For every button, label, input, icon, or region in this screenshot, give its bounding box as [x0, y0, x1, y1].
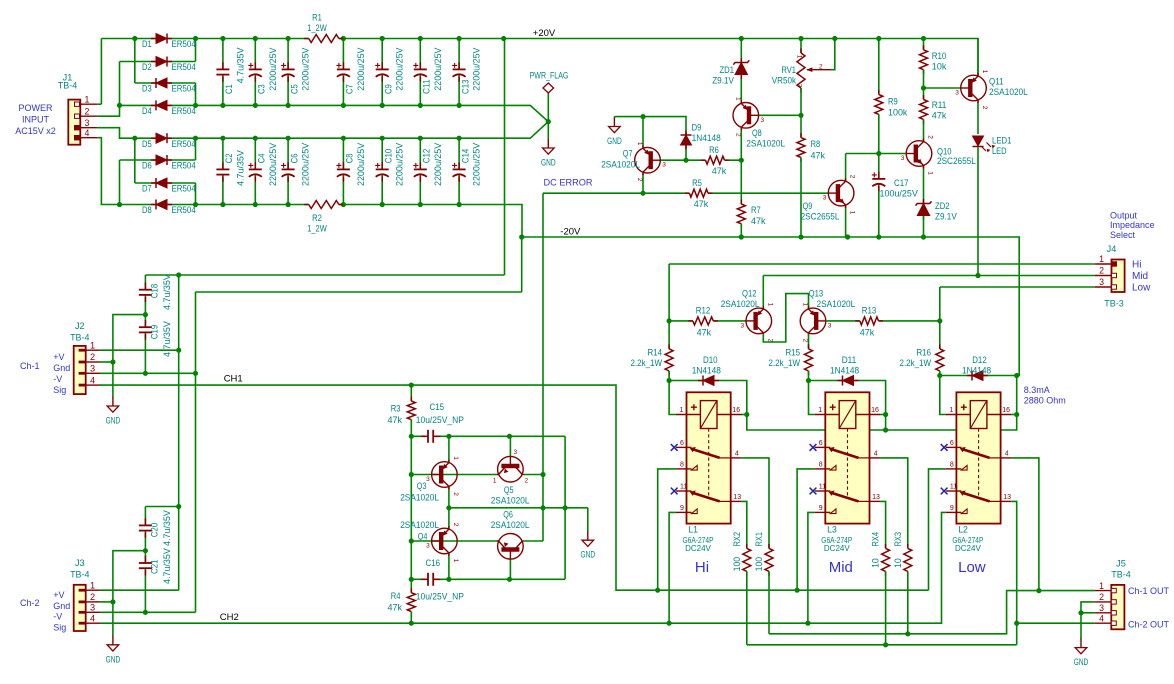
svg-text:L2: L2 [958, 525, 968, 535]
wire Q8 base [759, 114, 801, 116]
svg-text:2200u/25V: 2200u/25V [472, 47, 483, 91]
svg-text:Gnd: Gnd [53, 363, 70, 373]
diode D6 [151, 159, 156, 161]
svg-text:RX1: RX1 [754, 532, 765, 547]
capacitor C21 [144, 556, 146, 563]
zener ZD2 [923, 199, 925, 204]
svg-text:R14: R14 [647, 348, 662, 359]
wire gnd tap down [112, 362, 114, 398]
svg-text:1: 1 [981, 70, 988, 74]
resistor RX4 [885, 544, 887, 549]
wire [342, 175, 344, 205]
resistor RX3 [907, 544, 909, 549]
wire [287, 75, 289, 106]
svg-text:D2: D2 [142, 62, 152, 73]
capacitor C10 [381, 162, 383, 169]
svg-text:9: 9 [819, 505, 823, 512]
svg-text:DC24V: DC24V [685, 544, 711, 553]
svg-text:8.3mA: 8.3mA [1024, 385, 1050, 395]
svg-text:C11: C11 [422, 79, 433, 94]
junction [418, 202, 423, 207]
svg-text:1: 1 [493, 477, 497, 484]
wire J2 pin1 row [100, 349, 179, 351]
svg-text:2SA1020L: 2SA1020L [400, 520, 439, 531]
svg-text:R4: R4 [391, 591, 401, 602]
wire Q7 emitter [642, 173, 644, 193]
wire Q8 collector down [740, 128, 742, 160]
svg-text:1: 1 [802, 303, 809, 307]
resistor R5 [685, 192, 690, 194]
junction [341, 103, 346, 108]
svg-text:3: 3 [795, 84, 802, 88]
svg-text:3: 3 [823, 195, 827, 202]
junction [176, 348, 181, 353]
junction [744, 412, 749, 417]
wire +20V rail right [339, 39, 978, 76]
resistor R12 [688, 320, 693, 322]
svg-text:2SA1020L: 2SA1020L [989, 87, 1028, 98]
junction [921, 234, 926, 239]
resistor RX2 [746, 544, 748, 549]
capacitor C13 [458, 62, 460, 69]
junction [667, 621, 672, 626]
wire [254, 39, 256, 70]
wire [613, 117, 615, 118]
transistor Q10 [906, 139, 932, 169]
junction [655, 588, 660, 593]
svg-text:C4: C4 [257, 153, 268, 163]
svg-text:2SC2655L: 2SC2655L [937, 156, 976, 167]
svg-text:47k: 47k [697, 328, 712, 339]
diode D9 [685, 131, 687, 136]
capacitor C2 [222, 162, 224, 169]
junction [519, 234, 524, 239]
no-connect [671, 488, 678, 495]
wire [458, 39, 460, 70]
capacitor C11 [419, 62, 421, 69]
wire [686, 159, 706, 161]
svg-text:4.7u/35V: 4.7u/35V [162, 274, 173, 310]
wire +V drop [504, 39, 506, 276]
junction [132, 136, 137, 141]
junction [253, 202, 258, 207]
svg-text:Mid: Mid [1132, 271, 1148, 282]
wire D3 row [135, 82, 196, 84]
svg-text:Hi: Hi [695, 559, 709, 576]
wire [222, 175, 224, 205]
svg-text:D6: D6 [142, 161, 152, 172]
svg-text:2: 2 [85, 106, 90, 116]
junction [937, 318, 942, 323]
capacitor C17 [878, 172, 880, 179]
wire [923, 166, 925, 203]
svg-text:C3: C3 [257, 84, 268, 94]
junction [667, 318, 672, 323]
wire D2 cathode up [195, 39, 197, 62]
svg-text:Q11: Q11 [989, 77, 1004, 88]
connector J4 [1112, 260, 1125, 293]
svg-text:2200u/25V: 2200u/25V [395, 142, 406, 186]
junction [845, 234, 850, 239]
wire Q12-Q13 link [763, 294, 808, 342]
transistor Q7 [635, 145, 661, 175]
junction [1014, 373, 1019, 378]
capacitor C6 [287, 162, 289, 169]
wire J1 pin2 [98, 105, 120, 116]
svg-text:ER504: ER504 [172, 205, 197, 216]
wire [668, 321, 670, 349]
svg-text:1: 1 [1099, 581, 1104, 591]
wire L2 pin1 feed [940, 376, 946, 415]
wire Q5 top [509, 436, 511, 456]
junction [253, 136, 258, 141]
svg-text:Output: Output [1110, 211, 1138, 221]
wire Q4 emitter [448, 554, 450, 580]
junction [446, 505, 451, 510]
svg-text:2SA1020L: 2SA1020L [721, 299, 760, 310]
svg-text:CH1: CH1 [224, 374, 243, 385]
wire L2 pin13 down [1011, 501, 1017, 644]
svg-text:1: 1 [927, 171, 934, 175]
junction [1078, 610, 1083, 615]
junction [176, 504, 181, 509]
svg-text:4.7u/35V: 4.7u/35V [235, 47, 246, 83]
svg-text:RV1: RV1 [781, 65, 796, 76]
svg-text:1: 1 [766, 303, 773, 307]
svg-text:Ch-2 OUT: Ch-2 OUT [1128, 620, 1170, 630]
junction [409, 472, 414, 477]
wire [725, 159, 742, 161]
transistor Q12 [746, 306, 772, 336]
svg-text:3: 3 [955, 90, 959, 97]
junction [795, 588, 800, 593]
diode D2 [151, 61, 156, 63]
wire [411, 435, 426, 437]
junction [507, 577, 512, 582]
junction [975, 273, 980, 278]
wire gnd tap down [112, 602, 114, 636]
svg-text:C15: C15 [430, 402, 445, 413]
wire L2 pin16 [1011, 414, 1016, 416]
ground GND J3 [112, 636, 114, 645]
svg-text:2SA1020L: 2SA1020L [491, 495, 530, 506]
svg-text:2200u/25V: 2200u/25V [356, 47, 367, 91]
svg-text:4: 4 [85, 128, 90, 138]
wire Mid row [763, 275, 1094, 277]
svg-text:Ch-1: Ch-1 [20, 361, 40, 371]
svg-text:2: 2 [981, 106, 988, 110]
junction [739, 234, 744, 239]
wire [977, 101, 979, 134]
wire [145, 506, 178, 508]
wire coil rail [747, 415, 1017, 431]
transistor Q4 [432, 526, 458, 556]
wire D5-D7 branch [134, 138, 136, 183]
resistor R10 [923, 45, 925, 50]
wire Ch-1 OUT bus [769, 591, 1095, 634]
svg-text:47k: 47k [712, 166, 727, 177]
junction [683, 158, 688, 163]
svg-text:2SA1020L: 2SA1020L [817, 299, 856, 310]
junction [798, 36, 803, 41]
wire [800, 39, 802, 54]
junction [546, 119, 551, 124]
wire Hi row [669, 263, 1095, 265]
svg-text:Q3: Q3 [417, 481, 427, 492]
capacitor C5 [287, 62, 289, 69]
wire J1 pin1 up [100, 39, 102, 105]
svg-text:1: 1 [734, 97, 741, 101]
svg-text:D4: D4 [142, 106, 152, 117]
wire -V row right [339, 205, 522, 238]
svg-text:1_2W: 1_2W [307, 223, 327, 234]
svg-text:1N4148: 1N4148 [962, 365, 991, 376]
wire RX2 down [746, 571, 748, 644]
junction [457, 36, 462, 41]
svg-text:2SA1020L: 2SA1020L [400, 493, 439, 504]
svg-text:Sig: Sig [53, 623, 66, 633]
wire -V row left [120, 204, 309, 206]
junction [921, 85, 926, 90]
junction [193, 136, 198, 141]
wire [419, 138, 421, 169]
svg-text:R13: R13 [862, 305, 877, 316]
junction [143, 610, 148, 615]
svg-text:Q8: Q8 [752, 128, 762, 139]
svg-text:Select: Select [1110, 230, 1136, 240]
wire [381, 39, 383, 70]
wire L3 pin8 feed [797, 469, 815, 590]
wire [878, 114, 880, 153]
resistor R6 [701, 159, 706, 161]
junction [253, 103, 258, 108]
resistor R13 [855, 320, 860, 322]
svg-text:1_2W: 1_2W [307, 23, 327, 34]
diode D5 [151, 137, 156, 139]
svg-text:Ch-2: Ch-2 [20, 598, 40, 608]
diode D12 [967, 375, 972, 377]
svg-text:47k: 47k [387, 415, 402, 426]
svg-text:R6: R6 [709, 145, 719, 156]
wire Q5 right [524, 474, 543, 476]
junction [409, 538, 414, 543]
wire base row ch1 [411, 474, 497, 476]
junction [220, 202, 225, 207]
wire [800, 158, 802, 238]
junction [341, 202, 346, 207]
wire Q7 top row [614, 117, 686, 135]
wire J3 pin3 row [100, 611, 196, 613]
wire [144, 507, 146, 526]
potentiometer RV1 [800, 49, 802, 54]
capacitor C19 [144, 320, 146, 327]
svg-text:8: 8 [819, 461, 823, 468]
junction [341, 36, 346, 41]
svg-text:+20V: +20V [533, 28, 556, 39]
svg-text:4: 4 [90, 375, 95, 385]
svg-text:1N4148: 1N4148 [830, 365, 859, 376]
wire L1 pin13 to RX2 [741, 501, 747, 548]
wire CH2 net to L2 pin9 [100, 512, 946, 623]
wire D6 up [195, 138, 197, 160]
svg-text:2880 Ohm: 2880 Ohm [1024, 395, 1066, 405]
wire [419, 39, 421, 70]
svg-text:1: 1 [1099, 254, 1104, 264]
junction [176, 272, 181, 277]
junction [117, 202, 122, 207]
wire -20V rail [522, 237, 1019, 376]
wire D7 row [135, 182, 196, 184]
svg-text:ER504: ER504 [172, 84, 197, 95]
wire L3 pin16 [880, 414, 885, 416]
wire Q7 base [660, 159, 686, 161]
svg-text:3: 3 [90, 603, 95, 613]
junction [457, 136, 462, 141]
resistor R16 [939, 344, 941, 349]
wire [977, 39, 979, 76]
svg-text:47k: 47k [860, 328, 875, 339]
svg-text:4: 4 [874, 451, 878, 458]
svg-text:J5: J5 [1116, 558, 1126, 569]
svg-text:DC ERROR: DC ERROR [544, 177, 593, 187]
svg-text:-V: -V [53, 374, 62, 384]
svg-text:3: 3 [1099, 603, 1104, 613]
connector J5 [1111, 585, 1124, 629]
svg-text:4.7u/35V: 4.7u/35V [235, 150, 246, 186]
svg-text:3: 3 [901, 155, 905, 162]
svg-text:-V: -V [53, 612, 62, 622]
svg-text:1: 1 [452, 559, 459, 563]
wire [923, 39, 925, 50]
wire CH1 net [100, 385, 929, 590]
svg-text:9: 9 [680, 505, 684, 512]
svg-text:3: 3 [1099, 277, 1104, 287]
wire [740, 224, 742, 237]
wire L3 pin4 to RX3 [880, 458, 908, 549]
wire [144, 333, 146, 374]
resistor R8 [800, 133, 802, 138]
junction [1014, 412, 1019, 417]
wire [222, 39, 224, 70]
junction [457, 202, 462, 207]
svg-text:Z9.1V: Z9.1V [712, 75, 734, 86]
wire GND upper row [120, 105, 549, 121]
diode D7 [151, 182, 156, 184]
junction [409, 577, 414, 582]
svg-text:ZD2: ZD2 [935, 201, 950, 212]
capacitor C18 [144, 283, 146, 290]
wire Q12 top [762, 276, 764, 309]
wire J3 pin2 [100, 601, 113, 603]
wire GND lower row [135, 122, 549, 139]
wire C15 row [435, 435, 565, 437]
svg-text:2200u/25V: 2200u/25V [472, 142, 483, 186]
no-connect [810, 488, 817, 495]
svg-text:D9: D9 [692, 123, 702, 134]
wire L3 pin13 to RX4 [880, 501, 886, 548]
wire [669, 320, 693, 322]
svg-text:CH2: CH2 [220, 612, 239, 623]
wire LED to Mid row [977, 147, 979, 275]
junction [876, 36, 881, 41]
connector J2 [74, 346, 86, 394]
wire Q6 right [524, 540, 543, 542]
svg-text:47k: 47k [694, 199, 709, 210]
wire right leg [564, 436, 566, 579]
svg-text:R16: R16 [916, 348, 931, 359]
svg-text:R5: R5 [692, 178, 702, 189]
wire [668, 371, 670, 381]
svg-text:16: 16 [732, 407, 740, 414]
wire [845, 206, 847, 237]
junction [143, 548, 148, 553]
svg-text:1N4148: 1N4148 [692, 133, 721, 144]
svg-text:2: 2 [90, 352, 95, 362]
junction [446, 577, 451, 582]
svg-text:2: 2 [819, 63, 823, 70]
wire J5 pin4 feed [1017, 622, 1095, 624]
junction [806, 378, 811, 383]
diode D10 [698, 380, 703, 382]
svg-text:13: 13 [733, 494, 741, 501]
wire [144, 531, 146, 563]
svg-text:GND: GND [1074, 657, 1089, 667]
svg-text:R2: R2 [312, 213, 322, 224]
svg-text:16: 16 [1002, 407, 1010, 414]
svg-text:R11: R11 [932, 100, 947, 111]
capacitor C3 [254, 62, 256, 69]
svg-text:2.2k_1W: 2.2k_1W [631, 358, 663, 369]
junction [418, 103, 423, 108]
svg-text:10: 10 [871, 558, 882, 568]
svg-text:Q4: Q4 [418, 532, 428, 543]
wire +V row [145, 274, 504, 276]
wire D6 left down [119, 160, 121, 205]
svg-text:GND: GND [581, 550, 596, 560]
junction [220, 136, 225, 141]
svg-text:4.7u/35V: 4.7u/35V [162, 321, 173, 357]
svg-text:2: 2 [90, 592, 95, 602]
svg-text:13: 13 [1003, 494, 1011, 501]
svg-text:2: 2 [927, 135, 934, 139]
svg-text:13: 13 [872, 494, 880, 501]
capacitor C12 [419, 162, 421, 169]
wire [939, 287, 941, 321]
wire [144, 275, 146, 290]
wire L3 pin1 feed [809, 381, 815, 415]
svg-text:1: 1 [949, 407, 953, 414]
wire Q3 collector [448, 436, 450, 462]
svg-text:DC24V: DC24V [955, 544, 981, 553]
led LED1 [973, 136, 984, 146]
wire [254, 138, 256, 169]
diode D4 [151, 104, 156, 106]
wire [923, 119, 925, 140]
junction [876, 234, 881, 239]
svg-text:Ch-1 OUT: Ch-1 OUT [1128, 586, 1170, 596]
wire D2 left down [119, 62, 121, 106]
junction [739, 158, 744, 163]
svg-text:Mid: Mid [829, 559, 853, 576]
svg-text:ER504: ER504 [172, 62, 197, 73]
wire J2 pin3 row [100, 372, 196, 374]
svg-text:R8: R8 [811, 139, 821, 150]
svg-text:1: 1 [680, 407, 684, 414]
svg-text:C2: C2 [224, 154, 235, 164]
svg-text:2: 2 [452, 523, 459, 527]
junction [341, 136, 346, 141]
svg-text:2: 2 [1099, 592, 1104, 602]
